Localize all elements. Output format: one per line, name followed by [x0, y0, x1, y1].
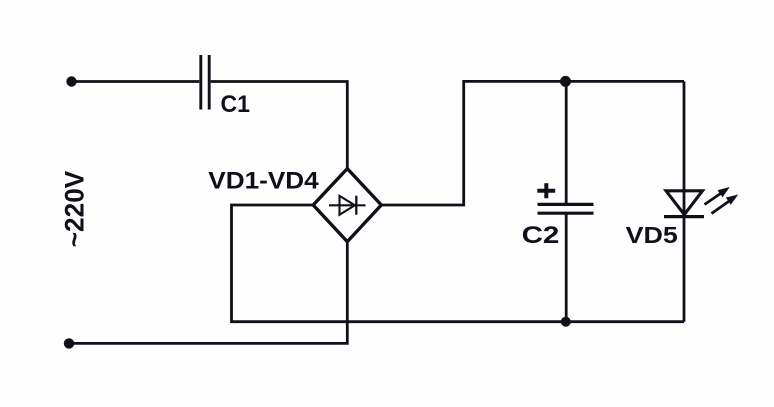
terminal node: AC input bottom (dot): [64, 338, 74, 348]
svg-text:C1: C1: [221, 91, 250, 117]
LED light arrows: [705, 187, 739, 214]
terminal node: AC input top (dot): [66, 76, 76, 86]
wire: bridge bottom vertex down-left to AC bottom terminal: [70, 242, 347, 343]
svg-text:VD5: VD5: [626, 223, 678, 249]
wire: bridge left vertex down-around to bottom bus: [232, 205, 685, 322]
LED VD5 (triangle + cathode bar): [664, 191, 704, 217]
node: bottom bus junction at C2 (dot): [561, 317, 571, 327]
wire: C1 right plate to bridge top vertex: [211, 82, 348, 169]
wire: C2 bottom plate down to bottom bus: [565, 215, 568, 322]
svg-text:VD1-VD4: VD1-VD4: [208, 167, 318, 194]
wire: top-left terminal to C1 left plate: [72, 80, 200, 83]
svg-text:~220V: ~220V: [59, 170, 89, 247]
svg-text:C2: C2: [522, 221, 560, 248]
node: top bus junction at C2 (dot): [560, 76, 571, 87]
capacitor C1: [201, 55, 209, 110]
bridge rectifier VD1-VD4 (diamond): [313, 169, 381, 242]
wire: top bus junction down to C2 top plate: [565, 81, 568, 203]
capacitor C2 (electrolytic): [538, 204, 594, 213]
polarity mark + for C2: [537, 183, 555, 198]
wire: bridge right vertex up to top bus: [381, 81, 684, 205]
diode symbol inside bridge: [329, 196, 366, 215]
wire: LED cathode down to bottom bus: [683, 217, 686, 322]
wire: top bus down to LED anode: [683, 81, 686, 216]
